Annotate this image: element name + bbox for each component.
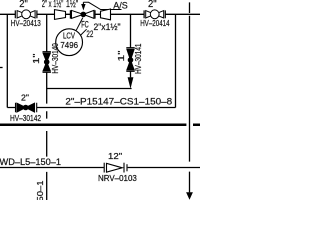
svg-text:2"–P15147–CS1–150–8: 2"–P15147–CS1–150–8 — [65, 97, 172, 107]
svg-text:HV–30140: HV–30140 — [51, 43, 60, 74]
svg-text:2"x1½": 2"x1½" — [94, 22, 121, 32]
svg-text:HV–20413: HV–20413 — [11, 19, 41, 28]
wire branch drop x=46.7 — [46, 14, 48, 200]
wire P15147 header y=88.5 — [47, 88, 132, 90]
flow arrow into P15147 header — [128, 77, 134, 89]
svg-text:HV–30142: HV–30142 — [10, 114, 41, 123]
svg-text:NRV–0103: NRV–0103 — [98, 174, 137, 183]
svg-text:1": 1" — [116, 50, 126, 61]
valve HV-30140 (vertical, closed) — [43, 52, 51, 73]
svg-text:WD–L5–150–1: WD–L5–150–1 — [36, 180, 45, 200]
svg-text:HV–20414: HV–20414 — [140, 19, 170, 28]
reducer 2"x1-1/2" — [55, 10, 66, 20]
actuator stem with fail arrow — [82, 2, 84, 5]
svg-text:22: 22 — [86, 29, 93, 39]
valve HV-20414 — [144, 10, 165, 19]
svg-text:FC: FC — [81, 19, 89, 29]
svg-text:7496: 7496 — [60, 40, 78, 50]
svg-text:2" x 1½": 2" x 1½" — [42, 0, 64, 10]
signal line A/S — [83, 2, 121, 9]
leader line bubble to note 22 — [80, 29, 86, 35]
flow arrow bottom right — [186, 192, 193, 200]
wire WD header y=167.5 — [0, 167, 200, 169]
check valve NRV-0103 — [104, 163, 127, 173]
wire far right vertical x=189.5 — [189, 2, 191, 192]
svg-text:1": 1" — [31, 53, 41, 64]
svg-text:A/S: A/S — [113, 0, 128, 11]
svg-text:12": 12" — [108, 151, 122, 161]
svg-text:2": 2" — [148, 0, 157, 10]
valve HV-30142 (closed) — [16, 103, 37, 113]
instrument bubble LCV 7496 — [56, 29, 83, 56]
control valve LCV-7496 body — [70, 10, 95, 18]
wire left edge stub — [0, 67, 3, 69]
wire bypass bottom line y=107.5 — [7, 107, 175, 109]
valve HV-20413 — [15, 10, 37, 19]
svg-text:HV–30141: HV–30141 — [134, 43, 143, 74]
wire left bypass drop x=7.3 — [6, 14, 8, 107]
svg-text:2": 2" — [21, 92, 29, 102]
valve HV-30141 (vertical, closed) — [126, 48, 134, 72]
svg-text:1½": 1½" — [66, 0, 78, 10]
expander 1-1/2"x2" — [101, 9, 111, 20]
svg-text:2": 2" — [19, 0, 28, 10]
wire branch drop x=130.5 — [130, 14, 132, 77]
pipe 2"-P15147-CS1-150-8 thick line — [0, 124, 200, 127]
wire right bypass riser x=175.5 — [175, 14, 177, 108]
leader line bubble to valve — [76, 18, 83, 31]
svg-text:WD–L5–150–1: WD–L5–150–1 — [0, 157, 61, 167]
wire main header pipe y=14.3 — [0, 13, 200, 15]
